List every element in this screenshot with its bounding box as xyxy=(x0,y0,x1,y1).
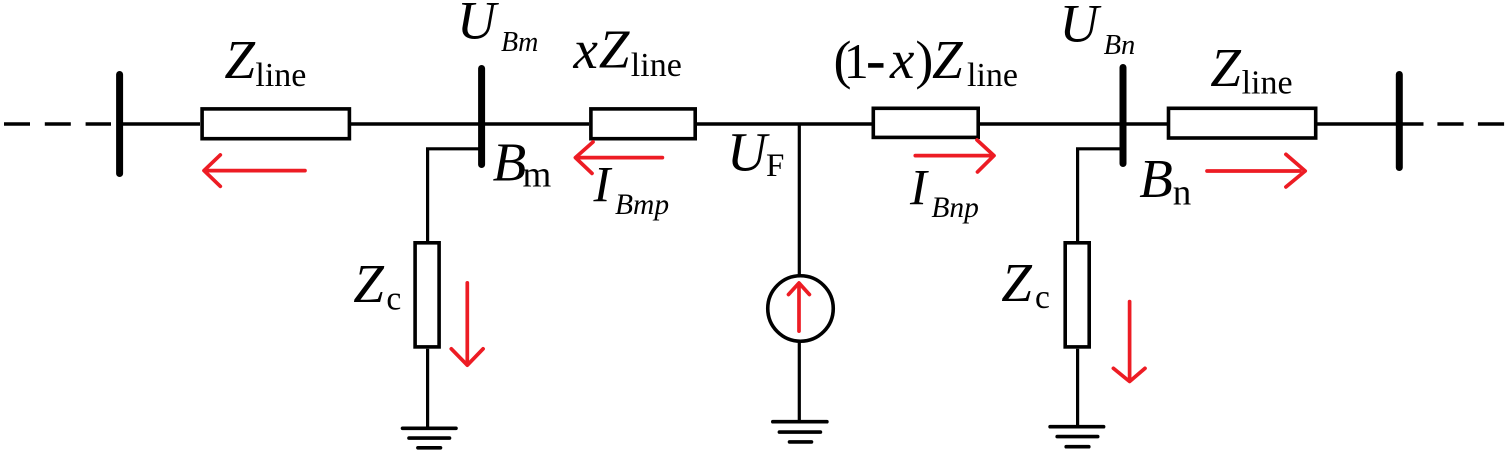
svg-text:Z: Z xyxy=(224,29,256,90)
bus bar left remote xyxy=(116,75,123,174)
resistor Zc (right) xyxy=(1065,243,1089,347)
svg-text:Z: Z xyxy=(599,18,631,79)
label U_Bm xyxy=(457,0,538,58)
svg-text:x: x xyxy=(889,29,915,90)
svg-text:m: m xyxy=(523,155,552,196)
wire: Zline box to right bus xyxy=(1318,122,1400,126)
label U_Bn xyxy=(1060,0,1136,61)
svg-text:Z: Z xyxy=(1210,37,1242,98)
wire: fault node down to source xyxy=(798,124,801,276)
svg-text:Z: Z xyxy=(1001,252,1033,313)
red arrow right I_Bnp xyxy=(915,140,994,172)
wire: (1-x)Zline box to bus Bn xyxy=(980,122,1123,126)
svg-text:c: c xyxy=(1035,279,1050,316)
resistor Zc (left) xyxy=(415,243,439,347)
label (1-x)Zline xyxy=(834,29,1018,94)
svg-text:line: line xyxy=(255,57,306,94)
bus bar Bm xyxy=(478,69,485,165)
svg-text:I: I xyxy=(909,160,929,216)
label B_n xyxy=(1139,148,1191,213)
svg-text:U: U xyxy=(1060,0,1102,54)
label I_Bmp xyxy=(593,157,670,221)
wire: branch from bus Bm to Zc xyxy=(428,149,481,241)
svg-text:1: 1 xyxy=(844,33,869,89)
fault current source circle xyxy=(768,276,834,342)
svg-text:B: B xyxy=(493,132,527,193)
svg-text:n: n xyxy=(1173,172,1192,213)
svg-text:line: line xyxy=(967,57,1018,94)
svg-text:I: I xyxy=(593,157,613,213)
bus bar Bn xyxy=(1120,68,1127,164)
svg-text:Bm: Bm xyxy=(501,27,538,58)
wire: bus Bm to xZline box xyxy=(481,122,589,126)
label Zc (left) xyxy=(353,253,401,317)
wire: Zc to ground (right) xyxy=(1076,349,1079,427)
bus bar right remote xyxy=(1396,75,1403,168)
resistor (1-x)Zline xyxy=(873,108,978,137)
svg-text:): ) xyxy=(915,30,933,90)
label xZline xyxy=(573,18,682,84)
svg-text:Bn: Bn xyxy=(1104,30,1136,61)
label I_Bnp xyxy=(909,160,979,224)
red arrow down (left Zc current) xyxy=(451,283,483,365)
svg-text:x: x xyxy=(573,19,599,80)
svg-text:Z: Z xyxy=(353,253,385,314)
wire: xZline box to fault node and to (1-x)Zline box xyxy=(697,122,872,126)
wire: Zline box to bus Bm xyxy=(351,122,481,126)
red arrow left I_Bmp xyxy=(575,142,662,173)
ground (middle) xyxy=(773,422,827,442)
svg-text:line: line xyxy=(631,47,682,84)
svg-text:Bmp: Bmp xyxy=(615,189,669,221)
label U_F xyxy=(727,122,784,184)
resistor xZline xyxy=(591,109,695,139)
svg-text:line: line xyxy=(1242,65,1293,102)
label Zc (right) xyxy=(1001,252,1050,316)
label B_m xyxy=(493,132,552,196)
ground (left) xyxy=(403,428,457,448)
label Zline (right) xyxy=(1210,37,1292,102)
red arrow left (current direction) xyxy=(204,155,305,186)
svg-text:U: U xyxy=(457,0,499,51)
red arrow right (at bus Bn) xyxy=(1207,154,1305,187)
wire: right solid stub xyxy=(1399,122,1423,126)
svg-text:U: U xyxy=(727,122,770,183)
wire: Zc to ground (left) xyxy=(426,349,429,429)
svg-text:F: F xyxy=(766,148,784,184)
wire: left dashed feeder xyxy=(4,122,111,126)
resistor Zline (left) xyxy=(202,109,349,139)
wire: bus Bn to Zline box (right) xyxy=(1123,122,1167,126)
red arrow down (right Zc current) xyxy=(1113,302,1145,382)
svg-text:Z: Z xyxy=(932,29,964,90)
wire: branch from bus Bn to Zc (right) xyxy=(1078,149,1121,241)
resistor Zline (right) xyxy=(1169,108,1316,138)
svg-text:c: c xyxy=(386,280,401,317)
svg-text:B: B xyxy=(1139,148,1173,209)
label Zline (left) xyxy=(224,29,306,94)
red arrow up (fault current) xyxy=(789,283,810,331)
wire: source to ground (middle) xyxy=(798,343,801,422)
wire: left bus to Zline box xyxy=(120,122,200,126)
wire: right dashed feeder xyxy=(1437,122,1508,126)
ground (right) xyxy=(1050,427,1104,447)
svg-text:Bnp: Bnp xyxy=(931,192,979,224)
